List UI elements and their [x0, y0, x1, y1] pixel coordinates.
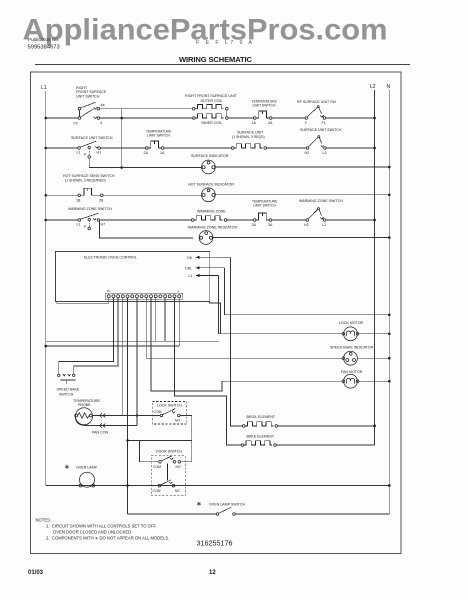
label RIGHT FRONT SURFACE UNIT / OUTER COIL: [185, 94, 238, 103]
svg-text:H1: H1: [97, 151, 102, 155]
wire row3 L1 to sens switch: [46, 194, 78, 196]
svg-text:WARMING ZONE: WARMING ZONE: [197, 210, 226, 214]
svg-text:SWITCH: SWITCH: [59, 392, 74, 396]
wire L1 exit down to lock motor row: [219, 276, 342, 334]
wire t16 to L1 feed: [178, 298, 180, 346]
svg-text:WARMING ZONE SWITCH: WARMING ZONE SWITCH: [68, 207, 112, 211]
svg-text:L1: L1: [41, 85, 47, 91]
node junction N surface indicator: [388, 166, 391, 169]
svg-text:∗: ∗: [64, 464, 70, 471]
svg-text:1. CIRCUIT SHOWN WITH ALL CON: 1. CIRCUIT SHOWN WITH ALL CONTROLS SET T…: [46, 524, 157, 529]
wire t9 to speed bake indicator: [146, 298, 342, 358]
wire bus horizontal upper: [46, 340, 219, 342]
svg-text:WARMING ZONE INDICATOR: WARMING ZONE INDICATOR: [188, 226, 237, 230]
connector probe top chevrons: [100, 414, 106, 418]
wire t5 to door switch feed and lamp circuit: [127, 298, 129, 514]
wire probe top to lock switch: [92, 415, 160, 417]
wire probe bottom: [84, 425, 137, 426]
node junction N speed bake: [388, 357, 391, 360]
box lock switch dashed: [152, 402, 186, 425]
label NOTES block: [36, 518, 170, 541]
svg-text:WARMING ZONE SWITCH: WARMING ZONE SWITCH: [299, 199, 343, 203]
svg-text:2A: 2A: [144, 151, 149, 155]
lamp speed bake indicator: [342, 351, 357, 365]
wire door switch top feed: [128, 440, 192, 442]
svg-text:L1: L1: [77, 223, 81, 227]
lamp surface indicator: [202, 160, 216, 174]
wire DRL output: [196, 267, 224, 269]
label OVEN LAMP SWITCH with asterisk: [196, 501, 245, 508]
wire row4 temp limit to wz switch: [272, 219, 306, 221]
title underline: [35, 64, 410, 66]
label SURFACE UNIT / (1 SHOWN, 3 REQD): [232, 131, 265, 140]
wire row1 coil to temp limit: [228, 117, 253, 119]
wire indicator row right to N: [215, 166, 389, 168]
wire H7 drop to warming indicator row: [99, 221, 193, 238]
svg-text:COM: COM: [154, 410, 162, 414]
switch oven lamp switch: [216, 507, 235, 515]
svg-text:∗: ∗: [196, 501, 202, 508]
wire t1 hook to box bottom: [57, 298, 109, 304]
svg-text:HOT SURFACE SENS SWITCH: HOT SURFACE SENS SWITCH: [63, 174, 115, 178]
svg-text:NO: NO: [175, 419, 180, 423]
thermostat hot surface sens switch (1B/2B): [78, 188, 103, 196]
lamp hot surface indicator: [202, 188, 216, 202]
svg-text:L1: L1: [77, 151, 81, 155]
svg-text:BROIL ELEMENT: BROIL ELEMENT: [247, 415, 276, 419]
node junction vertical crossing row1: [120, 117, 123, 120]
switch surface unit switch (H2/L3): [306, 136, 326, 150]
svg-text:5995384673: 5995384673: [28, 45, 60, 51]
wire bake element to L2 end: [276, 444, 374, 446]
wire warming indicator to N: [213, 237, 389, 239]
node junction L2 row1: [373, 117, 376, 120]
svg-text:SPEED BAKE INDICATOR: SPEED BAKE INDICATOR: [330, 346, 374, 350]
switch surface unit switch row2 (L1/P/H1): [78, 141, 101, 158]
label TEMPERATURE PROBE: [73, 399, 100, 407]
svg-text:15: 15: [107, 289, 111, 293]
schematic border frame: [31, 72, 402, 554]
wire speed bake indicator to N: [357, 357, 389, 359]
svg-text:RF SURFACE UNIT SW: RF SURFACE UNIT SW: [297, 100, 336, 104]
svg-text:SURFACE INDICATOR: SURFACE INDICATOR: [191, 154, 229, 158]
svg-text:F2: F2: [74, 122, 78, 126]
label HOT SURFACE SENS SWITCH: [63, 174, 115, 183]
svg-text:F1: F1: [322, 121, 326, 125]
wire t3 to speed bake switch right: [74, 298, 118, 374]
node junction L1 row2: [45, 147, 48, 150]
resistor bake element: [241, 441, 276, 447]
node junction door feed: [126, 439, 128, 441]
svg-text:L1: L1: [189, 274, 193, 278]
rail L2: [374, 90, 376, 445]
box door switch dashed: [151, 456, 185, 496]
connector probe bottom chevrons: [100, 424, 106, 428]
resistor surface unit coil: [231, 144, 266, 150]
node junction L2 broil: [373, 425, 376, 428]
svg-text:COM: COM: [153, 489, 161, 493]
svg-text:2B: 2B: [99, 198, 104, 202]
svg-text:L2: L2: [370, 84, 376, 90]
svg-text:HOT SURFACE INDICATOR: HOT SURFACE INDICATOR: [188, 183, 234, 187]
wire row4 L1 to switch: [46, 219, 78, 221]
motor fan motor: [222, 374, 359, 388]
wire row1 switch to coil: [100, 117, 193, 119]
label SPEED BAKE SWITCH: [57, 388, 80, 397]
wire row1 temp limit to rf switch: [272, 117, 305, 119]
resistor temperature probe: [75, 408, 93, 426]
node junction N row3: [388, 194, 391, 197]
wire row2 switch to temp limit: [100, 147, 145, 149]
wire door switch link: [167, 464, 169, 481]
wire eoc corner stub: [210, 302, 221, 334]
svg-text:SURFACE UNIT SWITCH: SURFACE UNIT SWITCH: [71, 136, 113, 140]
svg-text:(1 SHOWN, 3 REQUIRED): (1 SHOWN, 3 REQUIRED): [65, 179, 106, 183]
label OVEN LAMP with asterisk: [64, 464, 98, 471]
wire t10 to fan motor: [151, 298, 222, 391]
svg-text:(1 SHOWN, 3 REQD): (1 SHOWN, 3 REQD): [232, 135, 265, 139]
switch rf surface unit sw (Y/F1): [305, 106, 326, 120]
svg-text:H2: H2: [304, 223, 309, 227]
connector terminal pins: [107, 295, 181, 298]
wire t13 short drop: [164, 298, 166, 342]
svg-text:COM: COM: [153, 465, 161, 469]
connector P1 terminal strip: [105, 293, 182, 299]
wire lock switch NO down to door switch feed: [180, 416, 192, 441]
wire OK output: [196, 256, 231, 258]
svg-text:4: 4: [100, 121, 102, 125]
switch SW1 right front surface unit switch: [78, 102, 100, 119]
rail L1: [45, 91, 47, 486]
switch warming zone switch (L1/P/H7): [78, 213, 100, 230]
switch warming zone switch (H2/L2): [306, 208, 326, 222]
box electronic oven control: [55, 252, 209, 302]
svg-text:01/03: 01/03: [28, 570, 44, 576]
svg-text:LIMIT SWITCH: LIMIT SWITCH: [147, 134, 170, 138]
svg-text:INNER COIL: INNER COIL: [202, 121, 223, 125]
wire row2 temp limit to coil: [164, 147, 231, 149]
wire fan motor to N: [359, 380, 389, 382]
svg-text:OVEN LAMP SWITCH: OVEN LAMP SWITCH: [209, 503, 245, 507]
wire bottom main L1 to N: [46, 485, 390, 487]
wire L1 output: [196, 275, 219, 277]
wire vertical x122 from upper branch down to indicator row: [121, 109, 123, 168]
svg-text:P: P: [84, 225, 87, 229]
switch SW1 label (RIGHT FRONT SURFACE UNIT SWITCH): [76, 86, 107, 98]
svg-text:NOTES:: NOTES:: [36, 518, 52, 523]
svg-text:316255176: 316255176: [197, 539, 233, 548]
svg-text:OVEN LAMP: OVEN LAMP: [76, 466, 98, 470]
wire DRL exit down to N wire: [224, 268, 389, 315]
wire row3 to indicator: [103, 194, 201, 196]
label TEMPERATURE LIMIT SWITCH row1: [252, 100, 278, 108]
wire lamp switch row: [128, 486, 390, 515]
svg-text:2. COMPONENTS WITH ∗ DO NOT A: 2. COMPONENTS WITH ∗ DO NOT APPEAR ON AL…: [46, 536, 169, 541]
wire t11 short drop: [155, 298, 157, 342]
svg-text:SURFACE UNIT: SURFACE UNIT: [237, 131, 264, 135]
svg-text:3A: 3A: [268, 223, 273, 227]
wire row1 L1 to switch: [46, 117, 78, 119]
label TEMPERATURE LIMIT SWITCH row4: [252, 200, 278, 208]
svg-text:H2: H2: [305, 151, 310, 155]
wire row4 to L2: [326, 219, 375, 221]
lamp oven lamp: [79, 472, 95, 487]
svg-text:DRL: DRL: [185, 266, 192, 270]
svg-text:LOCK MOTOR: LOCK MOTOR: [339, 321, 363, 325]
svg-text:OK: OK: [187, 256, 193, 260]
wire t2 to speed bake switch left: [59, 298, 114, 374]
svg-text:Y: Y: [305, 121, 308, 125]
switch door switch lower COM/NC: [158, 480, 175, 487]
svg-text:OVEN DOOR CLOSED AND UNLOCKED: OVEN DOOR CLOSED AND UNLOCKED: [53, 530, 131, 535]
thermostat temp limit switch row4 (3A/3A): [253, 213, 272, 221]
wire lock motor to N: [359, 333, 389, 335]
wire door no drop: [181, 441, 192, 462]
node junction lamp drop: [126, 484, 129, 487]
node junction L1 row4: [45, 219, 48, 222]
wire L1 feed horizontal: [46, 345, 179, 347]
label TEMPERATURE LIMIT SWITCH row2: [146, 130, 172, 138]
svg-text:12: 12: [209, 570, 216, 576]
svg-text:NC: NC: [175, 489, 180, 493]
svg-text:WIRING SCHEMATIC: WIRING SCHEMATIC: [179, 55, 253, 64]
wire t15 to bake element: [175, 298, 242, 445]
wire row4 coil to temp limit: [227, 219, 254, 221]
switch lock switch COM/NO: [160, 409, 180, 417]
svg-text:PAN CON: PAN CON: [92, 431, 109, 435]
svg-text:BAKE ELEMENT: BAKE ELEMENT: [247, 435, 275, 439]
wire row2 coil to switch: [267, 147, 307, 149]
node junction L1 row3: [45, 194, 48, 197]
svg-text:1A: 1A: [252, 121, 257, 125]
resistor warming zone coil: [191, 216, 226, 222]
svg-text:LOCK SWITCH: LOCK SWITCH: [157, 404, 182, 408]
lamp warming zone indicator: [199, 231, 213, 245]
wire P contact drop to indicator row: [89, 158, 122, 167]
wire row2 to L2: [326, 147, 374, 149]
svg-text:2A: 2A: [268, 121, 273, 125]
resistor outer coil: [122, 105, 228, 117]
svg-text:1B: 1B: [76, 198, 81, 202]
rail N: [388, 90, 390, 486]
svg-text:LIMIT SWITCH: LIMIT SWITCH: [253, 104, 276, 108]
wire indicator row left: [122, 167, 202, 169]
svg-text:Publication No.: Publication No.: [28, 37, 59, 42]
node junction L2 row2: [373, 147, 376, 150]
svg-text:PROBE: PROBE: [78, 403, 91, 407]
svg-text:DOOR SWITCH: DOOR SWITCH: [156, 450, 182, 454]
node junction N bottom: [388, 484, 391, 487]
svg-text:LIMIT SWITCH: LIMIT SWITCH: [253, 204, 276, 208]
svg-text:ELECTRONIC OVEN CONTROL: ELECTRONIC OVEN CONTROL: [84, 256, 137, 260]
wire row1 to L2: [326, 117, 375, 119]
svg-text:SURFACE UNIT SWITCH: SURFACE UNIT SWITCH: [300, 128, 342, 132]
wire row4 switch to coil: [100, 219, 192, 221]
thermostat temp limit switch row1: [254, 111, 273, 119]
motor lock motor: [342, 327, 359, 341]
node junction L1 bus: [45, 345, 48, 348]
svg-text:P: P: [84, 153, 87, 157]
resistor broil element: [243, 422, 278, 428]
svg-text:SPEED BAKE: SPEED BAKE: [57, 388, 80, 392]
resistor inner coil: [193, 114, 229, 119]
svg-text:3A: 3A: [252, 223, 257, 227]
node junction L2 row4: [373, 219, 376, 222]
node junction N fan motor: [388, 380, 391, 383]
node junction N top wire: [388, 314, 391, 317]
node junction L1 row1: [45, 117, 48, 120]
svg-text:UNIT SWITCH: UNIT SWITCH: [76, 94, 100, 98]
node junction N lock motor: [388, 333, 391, 336]
wire row2 L1 to switch: [46, 147, 78, 149]
svg-text:H7: H7: [101, 223, 106, 227]
wire t4 to probe top: [122, 298, 124, 416]
wire upper branch 4a to corner: [100, 108, 122, 110]
node junction x122 indicator row: [120, 166, 123, 169]
svg-text:1A: 1A: [160, 151, 165, 155]
svg-text:OUTER COIL: OUTER COIL: [201, 99, 223, 103]
wire broil element to L2: [278, 425, 375, 427]
wire row3 indicator to N: [215, 194, 389, 196]
wire door com drop: [139, 441, 158, 462]
switch door switch upper COM/NO: [159, 456, 181, 463]
svg-text:N: N: [387, 84, 391, 90]
node junction t7 crossing lock switch feed: [136, 414, 138, 416]
svg-text:1: 1: [178, 289, 180, 293]
wire OK exit down to broil element: [231, 257, 243, 426]
thermostat temp limit switch row2: [146, 141, 165, 149]
svg-text:FAN MOTOR: FAN MOTOR: [341, 370, 363, 374]
wire t7 to probe bottom: [136, 298, 138, 426]
svg-text:4a: 4a: [101, 103, 105, 107]
svg-text:RIGHT FRONT SURFACE UNIT: RIGHT FRONT SURFACE UNIT: [185, 94, 238, 98]
svg-text:NO: NO: [176, 465, 181, 469]
node junction N warming indicator: [388, 236, 391, 239]
svg-text:L2: L2: [322, 223, 326, 227]
switch speed bake switch: [58, 374, 76, 384]
svg-text:L3: L3: [323, 151, 327, 155]
